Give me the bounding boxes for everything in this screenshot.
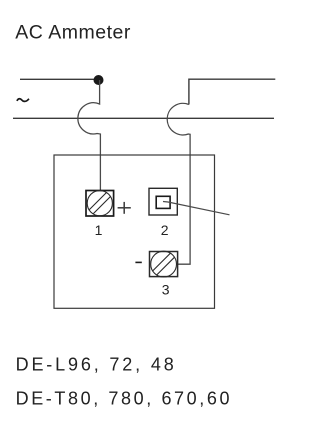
svg-text:1: 1 (95, 222, 103, 238)
terminal 3 (screw terminal) (150, 251, 178, 277)
svg-text:DE-L96, 72, 48: DE-L96, 72, 48 (16, 354, 177, 374)
wire: top-right supply line (189, 79, 275, 104)
pointer/leader line from terminal 2 (163, 202, 230, 215)
wire: bottom supply line (13, 117, 274, 119)
junction dot (94, 75, 104, 85)
svg-text:3: 3 (162, 282, 170, 298)
instrument case box (54, 155, 215, 308)
wire: left drop with crossover hop to terminal 1 (78, 80, 101, 191)
terminal 2 (selector) (149, 188, 177, 215)
plus sign (118, 202, 131, 214)
svg-text:DE-T80, 780, 670,60: DE-T80, 780, 670,60 (16, 388, 233, 408)
AC source symbol ~ (17, 99, 29, 102)
svg-text:2: 2 (161, 222, 169, 238)
wire: right drop with crossover hop to terminal 3 (167, 103, 190, 264)
terminal 1 (screw terminal) (86, 191, 114, 217)
wire: top-left supply line (20, 78, 98, 80)
minus sign (135, 261, 141, 263)
svg-text:AC Ammeter: AC Ammeter (15, 22, 131, 44)
